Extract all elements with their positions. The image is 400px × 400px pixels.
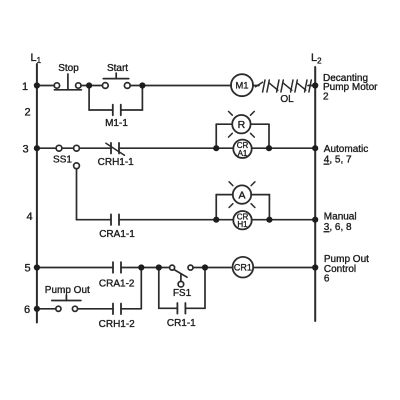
pushbutton Pump Out (NO) [52,295,81,311]
node rung4 at L2 [312,217,318,223]
svg-text:Pump Motor: Pump Motor [323,82,378,93]
wire SS1 lower throw down to rung4 [76,169,78,220]
svg-text:A1: A1 [238,149,248,158]
contact M1-1 (NO) [113,105,121,116]
svg-text:2: 2 [25,107,31,119]
svg-text:OL: OL [280,94,294,105]
svg-text:4: 4 [27,211,33,223]
wire FS1 to CR1 [193,267,233,269]
node rung5 B (CR1-1 branch left) [156,264,162,270]
pilot light A [229,182,255,208]
relay coil CRA1 [233,140,251,158]
svg-text:L2: L2 [311,52,322,66]
svg-text:SS1: SS1 [53,155,72,166]
wire CR1-1 parallel branch [159,268,205,309]
wire lamp branch rung3 [216,124,269,148]
relay coil CRH1 [233,211,251,229]
wire rung3 L1 to SS1 [37,147,56,149]
node rung5 at L1 [34,264,40,270]
wire Start to M1 coil [130,85,231,87]
power rail L2 [314,67,316,321]
contact CRA1-2 (NO) [113,262,121,273]
node rung3 at L2 [312,145,318,151]
node rung1 at L2 [312,82,318,88]
wire lamp branch rung4 [216,195,269,220]
node rung1 at L1 [34,82,40,88]
wire rung5 L1 to CRA1-2 [37,267,113,269]
svg-text:Pump Out: Pump Out [45,285,90,296]
node rung5 C (CR1-1 branch right) [202,264,208,270]
node Start right junction [139,82,145,88]
wire rung6 L1 to Pump Out PB [37,308,56,310]
pushbutton Stop (NC) [54,74,81,90]
wire rung1 L1 to Stop [37,85,54,87]
overload heaters OL [256,80,312,92]
contact CRH1-2 (NO) [113,304,121,315]
motor starter coil M1 [231,74,253,96]
svg-text:H1: H1 [237,220,248,229]
svg-text:6: 6 [24,304,30,316]
svg-text:2: 2 [323,91,329,102]
selector switch SS1 [56,145,79,168]
wire branch right vertical (rung2 seal-in) [141,86,143,111]
svg-text:M1-1: M1-1 [105,118,128,129]
svg-text:CRH1-2: CRH1-2 [99,319,136,330]
svg-text:3, 6, 8: 3, 6, 8 [324,222,352,233]
wire CRA1-1 to coil group [119,219,233,221]
svg-text:CRA1-1: CRA1-1 [99,229,135,240]
node rung6 at L1 [34,306,40,312]
svg-text:6: 6 [324,274,330,285]
pushbutton Start (NO) [102,73,130,88]
svg-text:M1: M1 [235,81,248,92]
svg-text:CR1-1: CR1-1 [167,318,196,329]
svg-text:L1: L1 [31,52,42,65]
svg-text:CRH1-1: CRH1-1 [98,157,135,168]
power rail L1 [36,64,38,323]
wire CRH1-1 to coil group [119,147,233,149]
wire Stop to Start [81,85,102,87]
relay coil CR1 [233,257,254,278]
node rung3 coil-group left [213,145,219,151]
wire SS1 to CRH1-1 [79,147,111,149]
float switch FS1 [170,265,193,287]
svg-text:R: R [238,119,246,131]
wire branch left vertical (rung2 seal-in) [88,86,90,111]
svg-text:Automatic: Automatic [324,144,368,155]
contact CRH1-1 (NC) [106,143,125,155]
svg-text:Start: Start [107,63,128,74]
node rung3 coil-group right [266,145,272,151]
wire CRH1-2 to corner joining rung5 [121,308,141,310]
svg-text:FS1: FS1 [173,288,192,299]
contact CRA1-1 (NO) [111,214,119,225]
wire coil to L2 [252,147,316,149]
svg-text:5: 5 [25,263,31,275]
contact CR1-1 (NO) [177,303,185,314]
node Stop-Start junction [86,82,92,88]
svg-text:CRA1-2: CRA1-2 [99,279,135,290]
node rung5 at L2 [312,264,318,270]
wire M1 to OL [253,85,259,87]
svg-text:4, 5, 7: 4, 5, 7 [324,155,352,166]
wire rung2 horizontal [89,109,113,111]
svg-text:3: 3 [23,144,29,156]
svg-text:Stop: Stop [58,63,79,74]
wire OL to L2 [308,85,315,87]
node rung5 A (seal branch) [138,264,144,270]
node rung3 at L1 [34,145,40,151]
wire Pump Out to CRH1-2 [78,308,113,310]
svg-text:1: 1 [22,81,28,93]
wire coil to L2 rung4 [252,219,316,221]
node rung4 coil-group left [213,217,219,223]
svg-text:Manual: Manual [324,212,357,223]
pilot light R [229,111,255,137]
svg-text:A: A [238,189,245,201]
svg-text:CR1: CR1 [234,263,252,273]
node rung4 coil-group right [266,217,272,223]
wire CR1 to L2 [253,267,315,269]
wire CRA1-2 to FS1 [121,267,170,269]
